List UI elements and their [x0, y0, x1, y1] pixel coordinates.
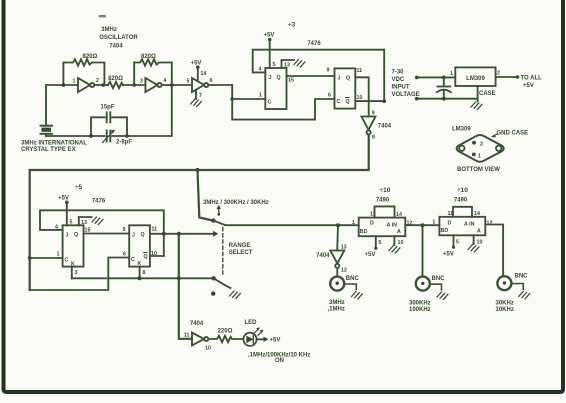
svg-text:LED: LED — [245, 320, 258, 326]
wire to inverter — [336, 225, 339, 250]
wire crystal line right — [112, 85, 172, 136]
svg-text:100KHz: 100KHz — [409, 307, 431, 313]
svg-text:BD: BD — [441, 228, 449, 234]
svg-text:J: J — [66, 233, 69, 239]
svg-text:A: A — [397, 229, 401, 235]
wire to U1b — [123, 84, 145, 86]
svg-text:3: 3 — [75, 270, 78, 276]
svg-text:13: 13 — [81, 220, 87, 226]
wire crystal bottom line — [46, 135, 105, 137]
node dot — [170, 83, 174, 87]
wire U1a out — [94, 84, 108, 86]
svg-text:6: 6 — [328, 93, 331, 99]
resistor R4 220ohm — [208, 329, 243, 343]
svg-text:820Ω: 820Ω — [108, 76, 123, 82]
svg-text:OSCILLATOR: OSCILLATOR — [99, 35, 138, 41]
svg-text:3: 3 — [140, 79, 143, 85]
label 7-30 VDC INPUT VOLTAGE — [392, 70, 420, 101]
svg-text:9: 9 — [123, 227, 126, 233]
flip-flop U2b box — [335, 68, 356, 108]
svg-text:4: 4 — [55, 225, 58, 231]
svg-text:5: 5 — [456, 240, 459, 246]
svg-text:7490: 7490 — [454, 198, 468, 204]
svg-text:11: 11 — [370, 212, 376, 218]
+5V pin 5 — [365, 236, 382, 258]
flip-flop U3b box — [129, 225, 150, 267]
wire U4 out — [405, 224, 439, 226]
svg-text:14: 14 — [396, 212, 402, 218]
inverter U1f — [192, 333, 211, 352]
switch pole S1a — [211, 218, 215, 222]
svg-text:C: C — [337, 99, 341, 105]
svg-text:4: 4 — [164, 78, 167, 84]
wire Q2 output to switch — [150, 233, 214, 235]
inverter U1a — [78, 78, 94, 92]
svg-text:9: 9 — [372, 111, 375, 117]
wire J1 feedback rail — [40, 210, 164, 256]
svg-text:7404: 7404 — [316, 253, 330, 259]
svg-text:7404: 7404 — [109, 44, 123, 50]
svg-text:2: 2 — [96, 78, 99, 84]
svg-text:ON: ON — [275, 358, 284, 364]
svg-text:+5V: +5V — [443, 252, 454, 258]
svg-text:12: 12 — [487, 221, 493, 227]
svg-text:12: 12 — [341, 268, 347, 274]
contact dot — [211, 291, 215, 295]
connector BNC3 — [497, 274, 529, 299]
wire to BNC1 — [336, 268, 338, 276]
node dot — [101, 83, 105, 87]
inverter U1e down — [316, 245, 347, 274]
svg-text:7476: 7476 — [92, 199, 106, 205]
switch wiper S1a — [213, 221, 225, 226]
svg-text:3MHz: 3MHz — [101, 27, 117, 33]
svg-text:2-8pF: 2-8pF — [116, 140, 132, 146]
ground pin 10 — [389, 236, 403, 253]
svg-text:15pF: 15pF — [101, 105, 115, 111]
svg-text:9: 9 — [327, 68, 330, 74]
inverter U1c buffer — [192, 78, 208, 92]
svg-text:7404: 7404 — [190, 321, 204, 327]
svg-text:820Ω: 820Ω — [83, 54, 98, 60]
label crystal — [21, 141, 87, 154]
svg-text:300KHz: 300KHz — [409, 301, 431, 307]
svg-text:1: 1 — [73, 79, 76, 85]
wire U6 out to BNC3 — [485, 225, 503, 276]
svg-text:D: D — [370, 221, 374, 227]
label 30KHz 10KHz — [496, 301, 514, 314]
crystal XTAL 3MHz — [41, 85, 53, 136]
label RANGE SELECT — [229, 243, 253, 256]
svg-text:8: 8 — [143, 270, 146, 276]
wire to BNC2 — [422, 225, 424, 276]
resistor R2 820ohm series — [108, 82, 123, 88]
svg-text:Q: Q — [141, 232, 145, 238]
svg-text:+5V: +5V — [191, 61, 202, 67]
svg-text:8: 8 — [372, 135, 375, 141]
svg-text:+5V: +5V — [523, 83, 534, 89]
svg-text:1: 1 — [57, 252, 60, 258]
resistor R3 820ohm feedback 2 — [134, 54, 172, 85]
connector BNC1 — [330, 276, 362, 299]
svg-text:13: 13 — [284, 63, 290, 69]
wire Q1 to J2 — [287, 75, 335, 77]
svg-text:5: 5 — [187, 79, 190, 85]
node dot — [132, 83, 136, 87]
svg-text:A IN: A IN — [387, 223, 398, 229]
svg-text:4: 4 — [259, 67, 262, 73]
label 3MHz OSCILLATOR 7404 — [99, 27, 138, 50]
resistor R1 820ohm feedback 1 — [62, 54, 105, 87]
wire input plus — [419, 76, 456, 78]
svg-text:BNC: BNC — [432, 276, 446, 282]
svg-text:30KHz: 30KHz — [496, 301, 514, 307]
wire Q1 to J2 — [84, 233, 130, 235]
svg-text:10KHz: 10KHz — [496, 307, 514, 313]
svg-text:A IN: A IN — [464, 222, 475, 228]
svg-text:SELECT: SELECT — [229, 250, 253, 256]
svg-text:VOLTAGE: VOLTAGE — [392, 92, 420, 98]
svg-text:A: A — [477, 229, 481, 235]
svg-text:2: 2 — [497, 71, 500, 77]
wire clock to U2b — [232, 99, 334, 120]
svg-text:15: 15 — [288, 78, 294, 84]
wire input minus — [419, 98, 478, 100]
wire main oscillator line — [46, 84, 78, 86]
LM309 PACKAGE BOTTOM VIEW — [452, 127, 528, 174]
+5V supply div5 — [58, 196, 72, 226]
svg-text:÷3: ÷3 — [288, 22, 296, 29]
svg-text:1: 1 — [352, 220, 355, 226]
svg-text:1: 1 — [432, 220, 435, 226]
svg-text:TO ALL: TO ALL — [521, 76, 543, 82]
svg-text:3MHz INTERNATIONAL: 3MHz INTERNATIONAL — [21, 141, 87, 147]
svg-text:Q: Q — [346, 99, 350, 105]
svg-text:Q: Q — [346, 76, 350, 82]
svg-text:3MHz: 3MHz — [329, 300, 345, 306]
svg-text:VDC: VDC — [392, 77, 405, 83]
svg-text:220Ω: 220Ω — [218, 329, 233, 335]
svg-text:1: 1 — [478, 154, 481, 160]
svg-text:Q: Q — [74, 232, 78, 238]
ground pin 13 bracket — [79, 217, 103, 226]
wire U1c out — [208, 84, 232, 86]
connector BNC2 — [416, 276, 448, 299]
svg-text:C: C — [131, 257, 135, 263]
svg-text:11: 11 — [357, 68, 363, 74]
wire 1MHz trunk down-left — [30, 135, 369, 290]
label 3MHz 1MHz — [328, 300, 345, 313]
switch wiper S1b to ground — [214, 278, 241, 298]
svg-text:7490: 7490 — [376, 198, 390, 204]
svg-text:7-30: 7-30 — [392, 70, 405, 76]
svg-text:J: J — [269, 75, 272, 81]
svg-text:÷5: ÷5 — [75, 184, 83, 191]
wire clear stubs line — [72, 267, 214, 281]
svg-text:5: 5 — [379, 240, 382, 246]
wire switch feed vertical — [198, 170, 211, 220]
flip-flop U3a box — [63, 225, 84, 267]
svg-text:BD: BD — [360, 229, 368, 235]
svg-text:820Ω: 820Ω — [141, 54, 156, 60]
ground pin 10 b — [468, 235, 482, 252]
inverter U1d down — [362, 111, 392, 141]
counter U6 box — [439, 207, 485, 236]
svg-text:Q: Q — [144, 254, 148, 260]
svg-text:C: C — [268, 100, 272, 106]
scan speck — [99, 15, 107, 17]
label 1MHz/100KHz/10KHz ON — [248, 353, 310, 365]
capacitor input filter — [437, 77, 451, 98]
+5V pin 5 b — [443, 235, 459, 257]
ground pin 13 bracket — [282, 60, 305, 69]
svg-text:BNC: BNC — [346, 276, 360, 282]
+5V supply div3 — [264, 33, 276, 69]
svg-text:11: 11 — [448, 211, 454, 217]
svg-text:14: 14 — [201, 71, 207, 77]
svg-text:10: 10 — [398, 240, 404, 246]
svg-text:13: 13 — [341, 245, 347, 251]
svg-text:÷10: ÷10 — [457, 187, 468, 194]
svg-text:RANGE: RANGE — [229, 243, 251, 249]
counter U4 box — [359, 206, 406, 236]
wire Q2 output down — [355, 77, 368, 116]
capacitor C1 15pF parallel branch — [89, 105, 129, 138]
wire pin10 to rail — [355, 100, 384, 102]
svg-text:BNC: BNC — [515, 274, 529, 280]
case ground — [471, 86, 496, 109]
svg-text:+5V: +5V — [270, 338, 281, 344]
wire selected output line — [226, 224, 359, 226]
regulator U5 LM309 box — [450, 67, 500, 86]
wire LED feed vertical — [179, 234, 192, 339]
svg-text:10: 10 — [477, 240, 483, 246]
svg-text:1: 1 — [259, 93, 262, 99]
svg-text:÷10: ÷10 — [380, 187, 391, 194]
trimmer capacitor C2 2-8pF — [103, 130, 133, 146]
wire output to all +5V — [496, 75, 543, 89]
svg-text:+5V: +5V — [264, 33, 275, 39]
svg-text:7404: 7404 — [378, 124, 392, 130]
wire pin10 loop — [150, 255, 164, 257]
wire U1b out — [162, 84, 192, 86]
svg-text:BOTTOM VIEW: BOTTOM VIEW — [457, 167, 500, 173]
svg-text:6: 6 — [210, 78, 213, 84]
wire clock feed from osc — [230, 85, 265, 101]
svg-text:LM309: LM309 — [452, 127, 471, 133]
svg-text:D: D — [448, 221, 452, 227]
wire clock C2 feed — [30, 258, 130, 291]
wire clock C1 feed — [28, 252, 63, 260]
svg-text:CRYSTAL TYPE EX: CRYSTAL TYPE EX — [21, 147, 76, 153]
svg-text:3MHz / 300KHz / 30KHz: 3MHz / 300KHz / 30KHz — [203, 200, 269, 206]
wire to +5V — [257, 337, 281, 344]
svg-text:Q: Q — [277, 75, 281, 81]
svg-text:7: 7 — [199, 93, 202, 99]
svg-text:1: 1 — [450, 71, 453, 77]
svg-text:C: C — [65, 258, 69, 264]
svg-text:,1MHz: ,1MHz — [328, 307, 345, 313]
+5V supply U1c pin 14 — [191, 61, 207, 82]
ground U1c pin 7 — [191, 90, 203, 106]
svg-text:7476: 7476 — [307, 41, 321, 47]
LED D1 — [243, 320, 263, 346]
svg-text:2: 2 — [480, 142, 483, 148]
svg-text:GND CASE: GND CASE — [497, 131, 529, 137]
svg-text:+5V: +5V — [365, 252, 376, 258]
switch pole S1b — [211, 276, 215, 280]
svg-text:14: 14 — [474, 211, 480, 217]
svg-text:J: J — [132, 233, 135, 239]
svg-text:J: J — [338, 76, 341, 82]
inverter U1b — [145, 78, 161, 92]
switch gang dashed link — [222, 228, 224, 276]
svg-text:10: 10 — [357, 95, 363, 101]
flip-flop U2a box — [265, 68, 286, 109]
contact arrowhead 1MHz — [213, 231, 218, 237]
svg-text:15: 15 — [85, 228, 91, 234]
svg-text:6: 6 — [123, 252, 126, 258]
svg-text:10: 10 — [205, 346, 211, 352]
svg-text:11: 11 — [152, 227, 158, 233]
svg-text:LM309: LM309 — [466, 76, 485, 82]
wire J1 feedback rail — [253, 50, 385, 101]
svg-text:INPUT: INPUT — [392, 85, 410, 91]
svg-text:CASE: CASE — [479, 91, 496, 97]
svg-text:11: 11 — [184, 333, 190, 339]
arrow marker — [217, 205, 221, 216]
node dot — [196, 168, 200, 172]
label 300KHz 100KHz — [409, 301, 431, 314]
